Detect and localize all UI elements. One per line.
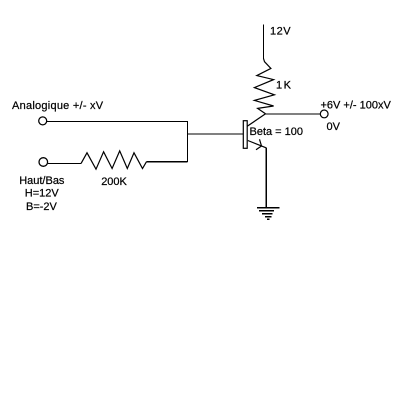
wire emitter to ground [265, 148, 267, 208]
wire analog input [47, 121, 188, 123]
svg-text:200K: 200K [101, 176, 127, 188]
transistor Q1 emitter arrow [256, 139, 262, 150]
transistor Q1 emitter [248, 141, 266, 148]
ground [257, 208, 280, 220]
svg-text:1K: 1K [276, 80, 292, 92]
node Haut/Bas terminal [39, 158, 48, 167]
svg-text:0V: 0V [327, 121, 341, 133]
resistor 1K [254, 59, 274, 114]
svg-text:+6V +/- 100xV: +6V +/- 100xV [321, 100, 392, 112]
transistor Q1 collector [247, 114, 265, 126]
svg-text:12V: 12V [270, 26, 291, 38]
svg-text:B=-2V: B=-2V [26, 201, 58, 213]
svg-text:Beta = 100: Beta = 100 [250, 126, 304, 138]
wire Haut/Bas to resistor [48, 163, 81, 165]
node analog input terminal [39, 117, 47, 125]
svg-text:Haut/Bas: Haut/Bas [19, 175, 65, 187]
wire junction vertical [187, 121, 189, 162]
node output terminal [320, 110, 328, 118]
transistor Q1 base bar [243, 121, 247, 149]
wire 12V supply [263, 25, 265, 59]
resistor 200K [81, 151, 147, 169]
wire base [187, 133, 243, 135]
svg-text:H=12V: H=12V [25, 188, 60, 200]
wire output [265, 113, 320, 115]
wire 200K to junction [147, 161, 188, 163]
svg-text:Analogique +/- xV: Analogique +/- xV [12, 100, 104, 112]
